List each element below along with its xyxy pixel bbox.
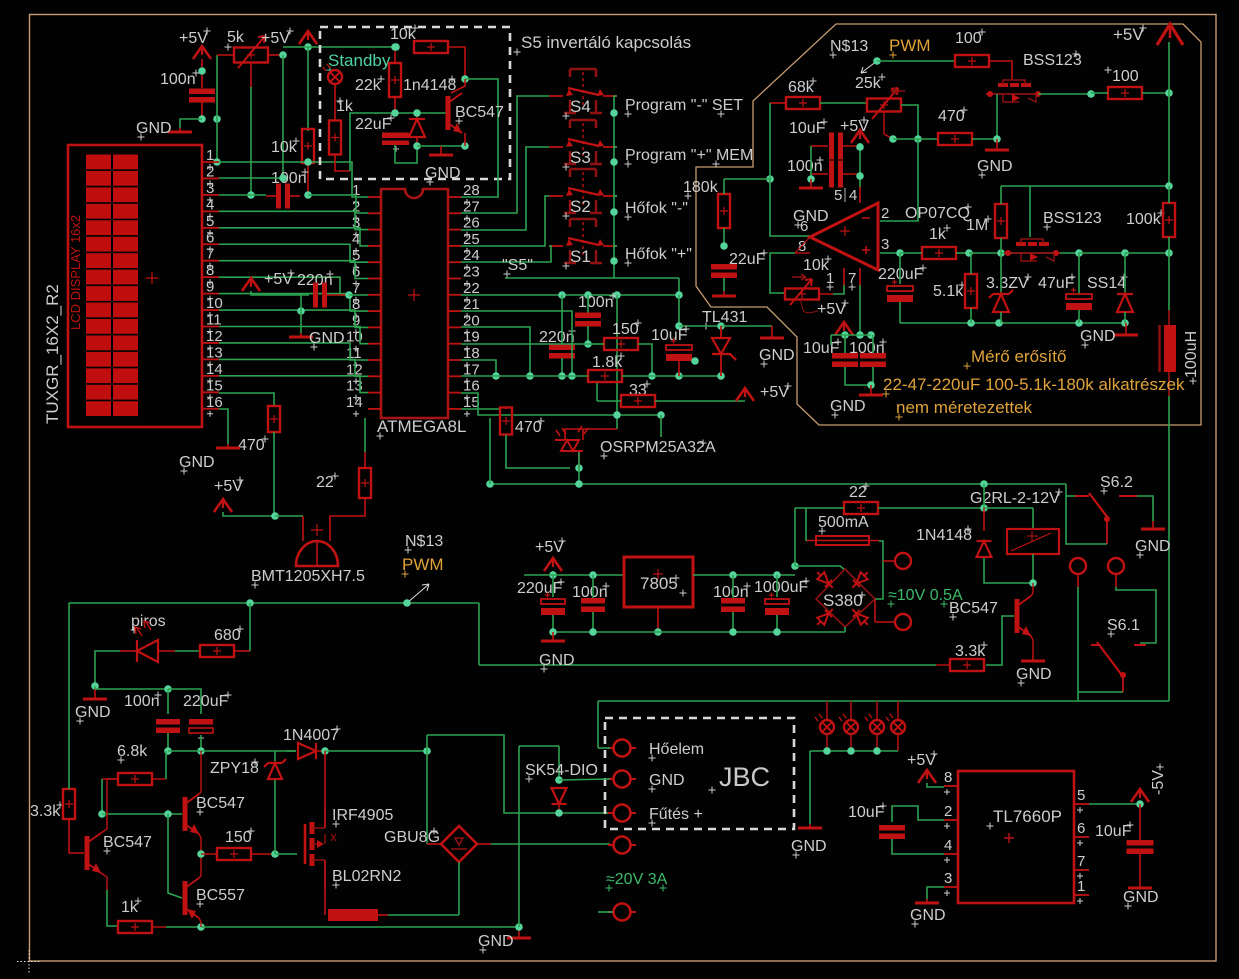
MOSFET BSS123 Q3	[1004, 239, 1060, 261]
junction	[584, 340, 592, 348]
transistor BC547 Q8	[1017, 596, 1031, 636]
wire stub	[678, 359, 680, 376]
wire	[872, 335, 874, 353]
junction	[549, 571, 557, 579]
wire	[558, 805, 560, 813]
MOSFET BSS123 Q2	[986, 80, 1042, 102]
junction	[575, 464, 583, 472]
svg-text:1: 1	[206, 147, 214, 164]
svg-text:BC547: BC547	[455, 104, 504, 121]
wire to ATMEGA	[364, 418, 366, 452]
ground	[712, 291, 736, 296]
junction	[392, 43, 400, 51]
wire +5V rail into box	[283, 46, 396, 48]
capacitor 1000uF C20	[765, 593, 789, 616]
ATMEGA right pins 28-15	[448, 197, 461, 409]
ground	[289, 333, 313, 337]
wire	[1077, 587, 1079, 701]
wire to LED	[506, 435, 570, 468]
wire pin7 stub	[859, 268, 861, 285]
wire LCD pin12 net	[219, 343, 368, 360]
svg-text:6: 6	[1077, 820, 1085, 837]
LCD pins 1-16	[202, 162, 219, 409]
connector pad circle	[1070, 558, 1086, 574]
wire cap to pin2	[892, 806, 944, 822]
capacitor 47uF C14	[1066, 288, 1092, 311]
wire	[983, 484, 985, 508]
svg-text:220uF: 220uF	[183, 693, 229, 710]
wire stub	[327, 294, 349, 296]
svg-text:BSS123: BSS123	[1043, 210, 1102, 227]
svg-text:1k: 1k	[121, 899, 139, 916]
wire stub	[843, 145, 857, 147]
wire to ATMEGA pin2	[308, 195, 368, 213]
svg-text:+5V: +5V	[535, 539, 564, 556]
+5V arrow supply 2	[299, 31, 317, 44]
MOSFET IRF4905 Q7	[305, 806, 336, 890]
svg-text:100n: 100n	[124, 693, 160, 710]
junction	[717, 322, 725, 330]
svg-text:2: 2	[206, 163, 214, 180]
resistor 22 R29	[844, 502, 878, 514]
resistor 470 R11	[500, 408, 512, 435]
svg-text:22: 22	[849, 484, 867, 501]
junction	[423, 747, 431, 755]
wire lamp bottom	[826, 734, 828, 751]
svg-text:OSRPM25A32A: OSRPM25A32A	[600, 439, 716, 456]
wire	[614, 195, 617, 197]
resistor 470 R17	[938, 133, 972, 145]
LED piros D5	[135, 621, 158, 662]
connector pad circle pin 4	[614, 837, 631, 854]
wire emitter	[101, 873, 107, 890]
wire left rail	[810, 146, 812, 179]
wire	[893, 138, 938, 140]
LCD module TUXGR_16X2_R2	[68, 145, 202, 427]
svg-text:14: 14	[346, 394, 363, 411]
svg-text:10k: 10k	[271, 139, 298, 156]
junction	[997, 249, 1005, 257]
junction	[675, 291, 683, 299]
svg-text:+5V: +5V	[760, 384, 789, 401]
TL7660 pin 8	[944, 785, 958, 787]
junction	[555, 776, 563, 784]
wire	[274, 780, 276, 854]
wire stub	[364, 452, 366, 468]
ground	[429, 146, 453, 155]
svg-text:Mérő erősítő: Mérő erősítő	[971, 347, 1066, 366]
svg-text:220uF: 220uF	[517, 580, 563, 597]
wire collector to 6.8k	[101, 779, 118, 833]
wire stub	[201, 75, 203, 88]
wire	[1168, 42, 1170, 93]
wire LCD pin16 to ground	[219, 409, 228, 444]
diode 1n4148 D1	[409, 119, 425, 137]
junction	[461, 75, 469, 83]
wire	[1142, 92, 1169, 94]
wire lamp to 1k	[334, 84, 336, 120]
wire pin17 net	[461, 375, 588, 377]
voltage regulator 7805 U3	[624, 557, 693, 607]
wire stub	[307, 162, 309, 195]
junction	[847, 747, 855, 755]
transistor BC547 Q1	[448, 93, 462, 133]
wire	[582, 429, 584, 440]
+5V arrow	[918, 770, 936, 783]
wire collector	[451, 79, 465, 93]
junction	[1121, 319, 1129, 327]
junction	[461, 142, 469, 150]
wire	[872, 367, 874, 385]
svg-text:TL431: TL431	[702, 309, 747, 326]
wire lamp top	[826, 701, 828, 720]
fuse 500mA F1	[806, 536, 879, 545]
junction	[279, 51, 287, 59]
resistor 100k R21	[1163, 203, 1175, 237]
svg-text:22k: 22k	[355, 77, 382, 94]
wire	[1091, 92, 1108, 94]
wire to pin7	[349, 294, 368, 296]
svg-text:7: 7	[206, 246, 214, 263]
wire	[679, 375, 721, 377]
wire LCD pin3 net	[219, 194, 266, 196]
wire stub	[795, 252, 810, 254]
wire	[592, 612, 594, 632]
junction	[1136, 800, 1144, 808]
wire stub	[158, 650, 175, 652]
junction	[856, 331, 864, 339]
svg-text:TL7660P: TL7660P	[993, 807, 1062, 826]
svg-text:OP07CQ: OP07CQ	[905, 205, 970, 222]
junction	[648, 372, 656, 380]
IC ATMEGA8L body	[381, 189, 448, 418]
wire lamp bottom	[897, 734, 899, 751]
svg-text:PWM: PWM	[889, 36, 931, 55]
+5V arrow	[544, 558, 562, 571]
svg-text:25k: 25k	[855, 75, 882, 92]
wire	[167, 689, 169, 714]
wire	[201, 102, 203, 119]
wire stub	[394, 47, 396, 53]
wire pin3 net	[880, 252, 900, 254]
wire	[969, 252, 1001, 254]
wire top rail	[95, 688, 168, 690]
junction	[391, 43, 399, 51]
wire	[168, 689, 201, 714]
svg-text:≈20V 3A: ≈20V 3A	[606, 871, 668, 888]
svg-text:68k: 68k	[788, 79, 815, 96]
wire	[1168, 93, 1170, 186]
junction	[197, 923, 205, 931]
wire lamp top	[876, 701, 878, 720]
junction	[867, 381, 875, 389]
svg-text:SS14: SS14	[1087, 275, 1126, 292]
junction	[873, 57, 881, 65]
svg-text:N$13: N$13	[405, 533, 443, 550]
wire	[1124, 312, 1126, 323]
+5V arrow supply 1	[193, 46, 211, 59]
switch S3	[549, 120, 617, 164]
+5V arrow large	[1157, 24, 1183, 45]
capacitor 10uF C9	[829, 133, 843, 160]
junction	[791, 562, 799, 570]
schottky diode SS14 D4	[1117, 294, 1133, 312]
resistor 1.8k R9	[588, 370, 622, 382]
resistor 10k R5	[414, 41, 448, 53]
junction	[345, 291, 353, 299]
junction	[841, 331, 849, 339]
wire lamp top	[897, 701, 899, 720]
leader arrow	[407, 584, 429, 603]
ground	[1128, 884, 1152, 888]
wire stub	[102, 778, 118, 780]
svg-text:150: 150	[612, 321, 639, 338]
svg-text:4: 4	[352, 231, 360, 248]
wire	[969, 253, 971, 274]
wire stub	[378, 914, 388, 916]
junction	[304, 43, 312, 51]
switch S6.2	[1075, 493, 1137, 544]
trimmer resistor 25k R16	[867, 99, 901, 112]
wire emitter net	[417, 145, 465, 147]
bridge rectifier S380 B2	[814, 569, 875, 629]
junction	[403, 599, 411, 607]
wire	[1137, 496, 1153, 521]
junction	[413, 142, 421, 150]
wire	[1079, 252, 1125, 254]
wire	[165, 751, 167, 779]
wire	[622, 375, 679, 377]
wire stub	[1077, 574, 1079, 587]
junction	[297, 307, 305, 315]
svg-text:5: 5	[1077, 787, 1085, 804]
svg-text:6: 6	[800, 218, 808, 235]
capacitor 100n C5	[575, 313, 601, 327]
junction	[575, 480, 583, 488]
switch S6.1	[1091, 642, 1146, 692]
resistor 10k R3	[302, 129, 314, 163]
resistor 150 R28	[217, 848, 251, 860]
junction	[773, 628, 781, 636]
junction	[675, 322, 683, 330]
junction	[271, 512, 279, 520]
wire	[587, 295, 589, 315]
wire stub	[152, 926, 166, 928]
wire stub	[316, 750, 325, 752]
wire 25k wiper	[883, 112, 885, 134]
wire	[95, 651, 120, 686]
junction	[613, 411, 621, 419]
svg-text:4: 4	[206, 196, 214, 213]
wire	[1000, 312, 1002, 323]
wire stub	[152, 778, 166, 780]
wire	[723, 278, 725, 291]
wire to GBU bottom	[388, 914, 459, 916]
junction	[247, 191, 255, 199]
svg-text:Hőelem: Hőelem	[649, 741, 704, 758]
wire down to LED net	[616, 295, 618, 429]
wire	[776, 615, 778, 632]
wire 10k to collector	[448, 47, 465, 79]
wire stub	[201, 59, 203, 67]
junction	[729, 571, 737, 579]
5k wiper stub	[250, 62, 252, 87]
wire	[776, 575, 778, 597]
junction	[613, 291, 621, 299]
wire	[592, 575, 594, 598]
junction	[675, 372, 683, 380]
svg-text:BC547: BC547	[103, 834, 152, 851]
svg-text:BSS123: BSS123	[1023, 52, 1082, 69]
svg-text:100: 100	[1112, 68, 1139, 85]
resistor 3.3k R30	[950, 659, 984, 671]
wire	[275, 515, 303, 517]
junction	[610, 208, 618, 216]
svg-text:3: 3	[206, 180, 214, 197]
wire stub	[201, 853, 217, 855]
wire LCD pin1 net	[219, 161, 308, 163]
junction	[164, 810, 172, 818]
capacitor 220uF C13	[887, 280, 913, 303]
junction	[1121, 249, 1129, 257]
junction	[993, 135, 1001, 143]
wire 7805 out	[693, 574, 795, 576]
wire	[251, 291, 309, 295]
wire	[518, 746, 520, 927]
junction	[691, 357, 699, 365]
junction	[1087, 90, 1095, 98]
wire	[1038, 93, 1091, 95]
junction	[773, 571, 781, 579]
capacitor 220uF C16	[189, 719, 213, 725]
wire	[972, 138, 997, 140]
svg-text:9: 9	[206, 279, 214, 296]
wire	[927, 783, 944, 787]
wire	[884, 134, 893, 139]
wire	[1000, 238, 1002, 253]
capacitor 100n C2	[276, 184, 290, 209]
wire emitter BC557	[199, 876, 201, 878]
wire stub	[1115, 574, 1117, 587]
wire pin15 net	[461, 408, 500, 410]
capacitor 100n C10	[829, 161, 843, 188]
junction	[856, 172, 864, 180]
wire	[984, 558, 1033, 583]
wire stub	[69, 819, 84, 853]
+5V arrow	[835, 322, 853, 335]
svg-text:10uF: 10uF	[1095, 823, 1132, 840]
wire	[68, 787, 70, 789]
svg-text:nem méretezettek: nem méretezettek	[896, 398, 1033, 417]
svg-text:1n4148: 1n4148	[403, 77, 456, 94]
junction	[610, 257, 618, 265]
lamp LED indicator 2	[839, 714, 858, 734]
wire	[101, 779, 103, 814]
wire emitter	[199, 834, 201, 876]
wire emitter	[1031, 636, 1033, 655]
svg-text:JBC: JBC	[719, 762, 770, 792]
capacitor 10uF C7	[666, 339, 692, 362]
wire IRF source	[324, 890, 326, 915]
wire pin5 out	[1089, 803, 1140, 805]
svg-text:BMT1205XH7.5: BMT1205XH7.5	[251, 568, 365, 585]
wire base net	[350, 113, 446, 171]
connector pad circle pin 1	[614, 740, 631, 757]
wire to gnd	[300, 295, 302, 333]
wire	[844, 627, 846, 632]
wire	[167, 733, 169, 751]
IC TL7660P U4	[958, 771, 1074, 903]
wire	[287, 750, 296, 752]
wire	[426, 735, 428, 844]
junction	[98, 810, 106, 818]
junction	[1075, 249, 1083, 257]
wire stub	[290, 195, 300, 197]
junction	[589, 628, 597, 636]
svg-text:1N4007: 1N4007	[283, 727, 339, 744]
wire IRF drain	[324, 751, 326, 806]
wire LCD pin15 to 470	[219, 393, 274, 406]
leader arrow	[861, 61, 877, 73]
svg-text:4: 4	[944, 837, 952, 854]
wire	[1078, 691, 1123, 693]
svg-text:23: 23	[463, 264, 480, 281]
wire base net	[102, 813, 182, 815]
wire speaker left pin	[302, 516, 304, 541]
junction	[197, 850, 205, 858]
wire	[561, 358, 563, 376]
wire base BC557	[168, 814, 182, 898]
resistor 3.3k R26	[63, 789, 75, 819]
wire mid rail	[168, 750, 296, 752]
svg-text:470: 470	[938, 108, 965, 125]
wire stub	[335, 155, 350, 171]
junction	[213, 158, 221, 166]
ATMEGA origin cross	[408, 289, 420, 301]
resistor 22k R7	[389, 63, 401, 97]
TL7660 pin 4	[944, 853, 958, 855]
junction	[914, 135, 922, 143]
wire	[732, 575, 734, 598]
svg-text:Standby: Standby	[328, 51, 391, 70]
wire	[614, 245, 617, 247]
wire 7805 gnd	[657, 607, 659, 632]
wire	[598, 747, 610, 749]
svg-text:22-47-220uF 100-5.1k-180k alk: 22-47-220uF 100-5.1k-180k alkatrészek	[883, 375, 1185, 394]
wire	[1168, 186, 1170, 203]
wire	[614, 146, 617, 148]
TL7660 pin 1	[1074, 894, 1089, 896]
-5V arrow	[1131, 789, 1149, 802]
switch S4	[549, 69, 617, 113]
wire PWM bus	[69, 602, 479, 604]
svg-text:S6.1: S6.1	[1107, 617, 1140, 634]
TL7660 pin 2	[944, 819, 958, 821]
resistor 5.1k R22	[965, 274, 977, 308]
schottky diode SK54 D9	[552, 788, 567, 804]
wire lamp bottom	[876, 734, 878, 751]
LCD origin cross	[146, 272, 158, 284]
LED OSRPM25A32A D2	[555, 426, 588, 451]
zener diode ZPY18 D6	[264, 759, 286, 779]
wire LED top	[565, 429, 617, 440]
wire	[655, 400, 745, 402]
wire	[732, 612, 734, 632]
svg-text:1000uF: 1000uF	[754, 579, 808, 596]
svg-text:4: 4	[849, 187, 857, 204]
junction	[720, 242, 728, 250]
svg-text:N$13: N$13	[830, 38, 868, 55]
